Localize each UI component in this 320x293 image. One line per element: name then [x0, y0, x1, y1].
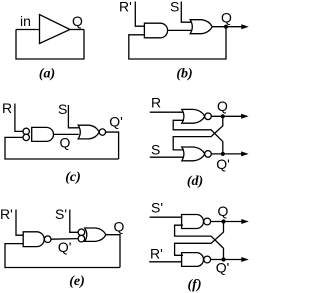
svg-text:R': R' [150, 246, 163, 262]
svg-text:Q: Q [217, 98, 228, 114]
arrowhead Q′ output f [241, 257, 249, 262]
wire R input d [150, 111, 184, 113]
wire feedback loop e [5, 244, 120, 268]
nand-gate U11 bottom [182, 253, 204, 267]
svg-text:Q': Q' [216, 156, 230, 172]
output bubble U7 [205, 151, 212, 158]
wire U10 output to node Q f [211, 221, 244, 223]
wire cross-coupling Q′ to U6 input [173, 120, 223, 154]
wire S input tick c [68, 105, 78, 128]
arrowhead Q output f [241, 219, 249, 224]
svg-text:Q': Q' [109, 113, 123, 129]
svg-text:R': R' [119, 0, 132, 15]
arrowhead Q output b [241, 24, 249, 29]
svg-text:Q: Q [72, 13, 83, 29]
junction node Q′ d [221, 152, 225, 156]
or-gate U3 [190, 20, 212, 34]
wire U8 output node Q′ to U9 [51, 238, 78, 241]
svg-text:S': S' [151, 200, 163, 216]
svg-text:Q: Q [221, 9, 232, 25]
svg-text:Q': Q' [216, 259, 230, 275]
wire cross-coupling Q to U7 input [173, 116, 223, 150]
output bubble U6 [205, 113, 212, 120]
wire U5 output to corner [106, 132, 119, 159]
nand-gate U10 top [182, 215, 204, 229]
buffer U1 [40, 15, 71, 44]
and-gate U4 (NOR form) [32, 127, 54, 141]
junction node Q b [224, 25, 228, 29]
wire S input tick [181, 2, 191, 23]
wire U9 output to corner e [106, 235, 120, 268]
svg-text:Q: Q [218, 203, 229, 219]
svg-text:(b): (b) [176, 67, 192, 82]
wire R′ input tick [135, 2, 144, 27]
or-gate U9 (NAND form) [85, 228, 106, 241]
svg-text:S: S [58, 101, 67, 117]
svg-text:(e): (e) [69, 274, 85, 289]
arrowhead Q′ output d [241, 151, 249, 156]
svg-text:S: S [151, 142, 160, 158]
wire U6 output to node Q d [211, 115, 244, 117]
svg-text:(a): (a) [39, 67, 55, 82]
junction node Q d [221, 114, 225, 118]
svg-text:S: S [170, 0, 179, 15]
wire feedback loop a [16, 30, 84, 60]
wire U4 output node Q to or-gate [54, 133, 79, 135]
wire input to buffer [16, 29, 40, 31]
wire R′ input tick e [16, 210, 23, 236]
and-gate U2 [144, 23, 167, 38]
nor-gate U7 bottom [182, 147, 205, 161]
junction node Q′ f [221, 257, 225, 261]
or-gate U5 [78, 125, 99, 139]
junction node Q f [221, 219, 225, 223]
inverting input bubble bottom U4 [23, 134, 29, 140]
svg-text:in: in [20, 13, 31, 29]
svg-text:(f): (f) [188, 278, 202, 293]
svg-text:Q: Q [114, 218, 125, 234]
output bubble U11 [204, 256, 211, 263]
svg-text:Q: Q [60, 135, 71, 151]
wire U3 output to node Q [212, 26, 244, 28]
output bubble U10 [204, 218, 211, 225]
svg-text:Q': Q' [58, 239, 72, 255]
svg-text:R': R' [0, 206, 13, 222]
svg-text:(c): (c) [65, 170, 81, 185]
svg-text:(d): (d) [187, 174, 203, 189]
wire feedback loop c [5, 137, 119, 159]
wire cross-coupling Q′ to U10 input [175, 225, 224, 259]
svg-text:S': S' [55, 206, 67, 222]
wire feedback loop b [129, 27, 226, 59]
inverting input bubble top U9 [78, 229, 85, 236]
output bubble U5 [99, 129, 105, 135]
svg-text:R: R [151, 95, 161, 111]
arrowhead Q output d [241, 114, 249, 119]
nor-gate U6 top [182, 109, 205, 123]
inverting input bubble top U4 [23, 128, 29, 134]
wire R input tick [15, 104, 23, 132]
wire U2 output to or-gate [168, 29, 192, 31]
wire R′ input f [149, 261, 183, 263]
wire U7 output to node Q′ d [211, 153, 244, 155]
wire S′ input tick e [70, 210, 78, 233]
svg-text:R: R [2, 100, 12, 116]
wire S′ input f [150, 216, 183, 218]
inverting input bubble bottom U9 [78, 235, 85, 242]
wire S input d [150, 156, 184, 158]
wire buffer output to node Q [70, 29, 84, 31]
nand-gate U8 [23, 232, 44, 247]
wire cross-coupling Q to U11 input [175, 222, 224, 256]
wire U11 output to node Q′ f [211, 259, 244, 261]
output bubble U8 [44, 236, 51, 243]
